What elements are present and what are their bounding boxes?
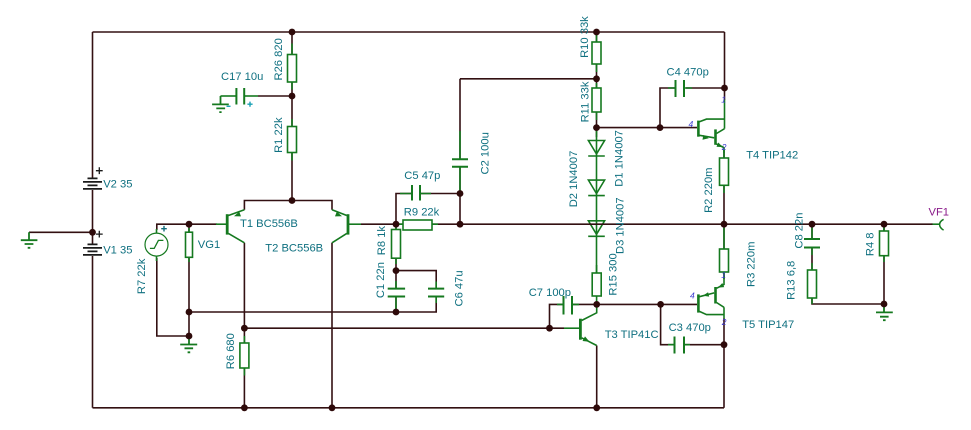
svg-text:T1 BC556B: T1 BC556B: [240, 218, 298, 230]
svg-text:V1 35: V1 35: [103, 245, 132, 257]
svg-text:C8 22n: C8 22n: [794, 213, 806, 249]
svg-text:VG1: VG1: [198, 239, 220, 251]
svg-text:R15 300: R15 300: [608, 253, 620, 295]
output terminal VF1: [932, 219, 944, 230]
capacitor C2: [452, 131, 468, 192]
node top rail at R10: [593, 29, 600, 36]
svg-text:4: 4: [689, 119, 694, 129]
svg-text:C3 470p: C3 470p: [669, 322, 711, 334]
node battery mid: [89, 229, 96, 236]
capacitor C4: [668, 80, 692, 97]
node T2 collector rail: [329, 404, 336, 411]
svg-text:R1 22k: R1 22k: [273, 117, 285, 153]
capacitor C7: [557, 296, 579, 315]
ground at C17: [212, 96, 229, 112]
node VG1-R7-T1 base: [186, 221, 193, 228]
wire T2 base: [361, 223, 396, 225]
node C7-T3 base: [546, 325, 553, 332]
wire C2 column lower: [459, 167, 461, 225]
resistor R4: [880, 224, 889, 262]
node C3-T5 base: [657, 301, 664, 308]
resistor R9: [398, 220, 438, 230]
wire top rail: [93, 31, 725, 33]
svg-text:R10 33k: R10 33k: [579, 16, 591, 58]
svg-text:C6 47u: C6 47u: [454, 270, 466, 306]
wire C8-R13 column: [812, 248, 884, 305]
node main line-C2: [457, 221, 464, 228]
wire R8 column upper: [395, 224, 397, 288]
svg-text:R7 22k: R7 22k: [136, 258, 148, 294]
wire ground left: [29, 231, 93, 233]
wire C2 top link: [460, 78, 597, 80]
svg-text:R11 33k: R11 33k: [580, 81, 592, 122]
resistor R3: [720, 228, 729, 279]
node C3-T5 collector: [721, 341, 728, 348]
wire C17 to node: [258, 95, 292, 97]
wire T4 base: [597, 127, 698, 129]
wire T5 collector lower: [723, 319, 725, 408]
node T1 collector-R6: [241, 325, 248, 332]
node main line-R4: [881, 221, 888, 228]
resistor R8: [392, 224, 401, 264]
node main line-R2-R3: [721, 221, 728, 228]
wire T2 collector: [331, 243, 333, 408]
svg-text:C4 470p: C4 470p: [667, 66, 709, 78]
wire left rail upper: [92, 32, 94, 178]
generator VG1 circle: [145, 229, 168, 261]
transistor T1: [216, 210, 244, 243]
node C5-C2: [457, 190, 464, 197]
ground left of batteries: [21, 232, 38, 248]
wire main output line: [396, 223, 933, 225]
svg-text:R13 6,8: R13 6,8: [786, 261, 798, 300]
resistor R13: [808, 263, 817, 304]
node R11-D1-base: [593, 124, 600, 131]
plus mark VG1: [161, 226, 167, 232]
capacitor C17: [221, 88, 259, 105]
resistor R15: [592, 265, 601, 304]
node main line-C8: [809, 221, 816, 228]
diode D3: [588, 221, 605, 237]
wire left rail mid: [92, 190, 94, 244]
svg-text:1: 1: [721, 95, 726, 105]
node C1 bottom: [393, 309, 400, 316]
svg-text:D3 1N4007: D3 1N4007: [615, 197, 627, 254]
minus mark C17: [227, 105, 231, 107]
svg-text:4: 4: [690, 291, 695, 301]
wire R7 column: [188, 224, 190, 336]
capacitor C3: [668, 337, 690, 354]
wire C1-C6 bottom line: [189, 297, 436, 313]
node R13-R4-ground: [881, 301, 888, 308]
capacitor C8: [804, 228, 820, 255]
wire C3 left branch: [661, 304, 675, 344]
wire C1 bottom stub: [395, 297, 397, 313]
wire C3 right: [684, 344, 724, 346]
transistor T2: [332, 210, 361, 243]
wire C1-C6 top link: [396, 271, 436, 289]
wire C2 column upper: [459, 79, 461, 159]
svg-text:R26 820: R26 820: [273, 38, 285, 80]
svg-text:R8 1k: R8 1k: [376, 226, 388, 256]
wire T4 collector top: [724, 32, 726, 100]
svg-text:D1 1N4007: D1 1N4007: [614, 130, 626, 187]
svg-text:VF1: VF1: [929, 207, 950, 219]
resistor R6: [240, 336, 249, 376]
ground at R4: [876, 304, 893, 320]
svg-text:2: 2: [721, 317, 727, 327]
transistor T5: [698, 279, 724, 318]
svg-text:R2 220m: R2 220m: [703, 167, 715, 212]
node top rail at R26: [289, 29, 296, 36]
wire C4 right: [686, 87, 725, 89]
wire T3 emitter: [596, 346, 598, 408]
svg-text:C5 47p: C5 47p: [404, 170, 440, 182]
wire left rail lower: [92, 256, 94, 408]
svg-text:T4 TIP142: T4 TIP142: [746, 149, 798, 161]
node R26-C17-R1: [289, 93, 296, 100]
transistor T3: [564, 304, 597, 345]
wire R2 column: [723, 150, 725, 224]
svg-text:C2 100u: C2 100u: [479, 132, 491, 174]
node R6 rail: [241, 404, 248, 411]
battery V1: [83, 231, 103, 255]
resistor R26: [288, 44, 297, 90]
capacitor C1: [388, 281, 405, 310]
wire R3 column: [723, 224, 725, 279]
wire C5 left branch: [396, 194, 412, 225]
node VG1 ground: [186, 333, 193, 340]
svg-text:C7 100p: C7 100p: [529, 287, 571, 299]
svg-text:R6 680: R6 680: [225, 333, 237, 369]
wire R6 column: [243, 328, 245, 408]
wire R10-R11 column: [596, 32, 598, 137]
wire C5 right: [420, 193, 460, 195]
wire T1 base: [189, 223, 217, 225]
node R8-C1-C6: [393, 267, 400, 274]
wire C8 top stub: [811, 224, 813, 239]
node R10-R11-C2: [593, 75, 600, 82]
svg-text:T3 TIP41C: T3 TIP41C: [605, 329, 659, 341]
svg-text:2: 2: [721, 142, 727, 152]
capacitor C5: [400, 185, 431, 201]
node C4-T4 collector: [721, 85, 728, 92]
node R7-C1C6 line: [186, 309, 193, 316]
svg-text:D2 1N4007: D2 1N4007: [568, 151, 580, 208]
svg-text:1: 1: [721, 270, 726, 280]
node R15-C7-T3 collector: [593, 301, 600, 308]
plus mark C17: [247, 102, 252, 107]
wire C7 right: [572, 303, 597, 305]
transistor T4: [698, 100, 724, 154]
svg-text:T5 TIP147: T5 TIP147: [742, 319, 794, 331]
wire diode chain column: [596, 129, 598, 274]
ground at VG1: [180, 336, 197, 352]
resistor R1: [288, 119, 297, 161]
capacitor C6: [428, 282, 444, 304]
resistor R10: [592, 35, 601, 72]
diode D2: [588, 180, 605, 196]
wire C7 left branch: [550, 304, 564, 328]
wire bottom rail: [93, 407, 725, 409]
wire T5 base line: [597, 303, 697, 305]
wire R4 column: [883, 224, 885, 304]
wire VG1 top: [157, 224, 189, 230]
wire T1 collector: [243, 243, 245, 328]
diode D1: [588, 141, 605, 157]
resistor R2: [720, 150, 729, 193]
svg-text:V2 35: V2 35: [103, 179, 132, 191]
battery V2: [83, 167, 103, 189]
wire R26-R1 column: [291, 32, 293, 201]
node R1-emitters: [289, 197, 296, 204]
svg-text:R9 22k: R9 22k: [404, 207, 440, 219]
svg-text:R3 220m: R3 220m: [746, 242, 758, 287]
svg-text:T2 BC556B: T2 BC556B: [265, 243, 323, 255]
wire VG1 bottom loop: [157, 258, 189, 336]
wire C4 branch: [660, 88, 675, 128]
resistor R7 body: [186, 228, 193, 262]
node C4-T4 base: [657, 124, 664, 131]
node T3 emitter rail: [593, 404, 600, 411]
node T2 base-R8-C5-R9: [393, 221, 400, 228]
wire T3 base line: [244, 327, 564, 329]
resistor R11: [592, 83, 601, 120]
svg-text:R4 8: R4 8: [865, 232, 877, 256]
svg-text:C17 10u: C17 10u: [221, 71, 263, 83]
wire emitter node T1-T2: [244, 201, 332, 210]
svg-text:C1 22n: C1 22n: [375, 262, 387, 298]
